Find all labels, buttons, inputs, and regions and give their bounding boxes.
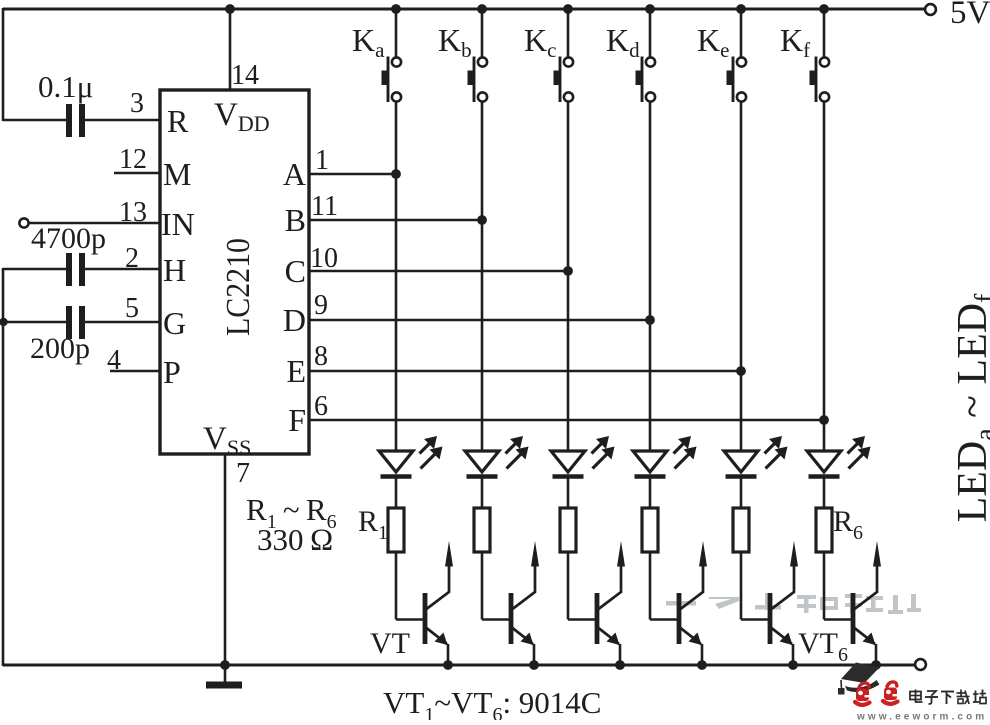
svg-text:B: B [285,202,306,238]
svg-text:13: 13 [119,197,147,228]
svg-text:200p: 200p [30,332,90,365]
svg-text:5: 5 [125,293,139,324]
svg-text:5V: 5V [950,0,990,31]
svg-text:A: A [283,156,306,192]
svg-text:LC2210: LC2210 [220,238,257,336]
svg-text:3: 3 [130,88,144,119]
svg-text:7: 7 [236,458,250,489]
svg-text:10: 10 [310,243,338,274]
svg-text:4700p: 4700p [31,222,106,255]
svg-text:2: 2 [125,243,139,274]
svg-text:M: M [163,156,191,192]
svg-text:VT: VT [370,627,410,660]
svg-text:0.1μ: 0.1μ [38,69,93,104]
svg-text:IN: IN [161,206,195,242]
svg-text:E: E [286,353,306,389]
svg-text:9: 9 [314,290,328,321]
svg-text:F: F [288,402,306,438]
svg-text:330 Ω: 330 Ω [257,522,334,557]
svg-text:R: R [167,103,189,139]
svg-text:C: C [285,253,306,289]
svg-text:14: 14 [231,60,259,91]
svg-text:1: 1 [315,145,329,176]
svg-text:www.eeworm.com: www.eeworm.com [856,712,987,721]
svg-text:G: G [163,305,186,341]
svg-text:8: 8 [314,341,328,372]
svg-text:4: 4 [107,345,121,376]
svg-text:D: D [283,302,306,338]
svg-text:12: 12 [119,144,147,175]
svg-text:LEDa ~ LEDf: LEDa ~ LEDf [950,293,990,522]
svg-text:6: 6 [314,391,328,422]
svg-text:P: P [163,354,181,390]
svg-text:VT1~VT6: 9014C: VT1~VT6: 9014C [383,685,601,720]
svg-text:11: 11 [311,191,338,222]
svg-text:H: H [163,252,186,288]
